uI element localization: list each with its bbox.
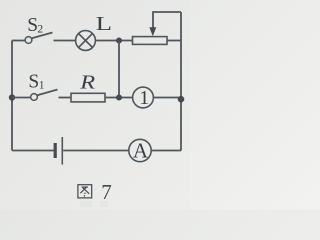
wire: battery to ammeter xyxy=(63,150,129,152)
wire: lamp to rheostat xyxy=(95,40,132,42)
node: junction R right / middle wire xyxy=(116,95,122,101)
battery cell xyxy=(55,137,62,165)
wire: ammeter to right rail xyxy=(151,150,181,152)
resistor R xyxy=(71,93,105,102)
faint bleed-through ghost below caption xyxy=(80,201,108,207)
caption: 图 (hand drawn) xyxy=(78,185,92,198)
wire: rheostat slider to top-right rail xyxy=(153,12,181,28)
wire: middle vertical (lamp junction to R junction) xyxy=(118,41,120,98)
wire: rheostat right terminal to rail xyxy=(167,40,181,42)
wire: right vertical rail xyxy=(180,12,182,151)
ammeter A xyxy=(129,139,151,161)
rheostat (slide resistor) body xyxy=(133,37,168,45)
wire: bottom left to battery xyxy=(12,150,54,152)
paper grain xyxy=(0,0,190,210)
node: junction on right rail xyxy=(178,96,185,103)
rheostat slider arrow xyxy=(149,27,156,36)
node: junction after lamp xyxy=(116,38,122,44)
wire: R to meter 1 xyxy=(105,97,133,99)
meter 1 (circle with digit 1) xyxy=(133,87,154,108)
wire: meter 1 to right rail xyxy=(153,97,181,99)
wire: left vertical rail xyxy=(11,41,13,151)
switch S2 xyxy=(12,33,76,44)
lamp L xyxy=(76,31,96,51)
switch S1 xyxy=(12,90,71,101)
node: left rail branch for S1 xyxy=(9,94,15,100)
